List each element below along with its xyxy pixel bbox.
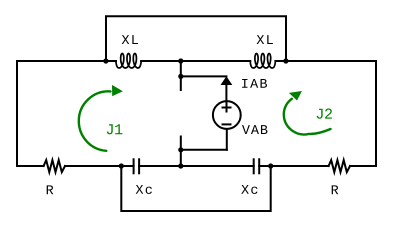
inductor XL right <box>250 54 275 69</box>
node dot top-right junction <box>283 58 288 63</box>
arrowhead IAB <box>221 76 233 85</box>
node dot jog bottom junction <box>178 147 183 152</box>
wire bottom row left <box>17 165 44 167</box>
capacitor Xc left plate B <box>138 159 140 173</box>
resistor R right <box>329 160 350 172</box>
node dot bottom-right junction <box>268 163 273 168</box>
inductor XL left <box>116 54 141 69</box>
node dot bottom-left junction <box>119 163 124 168</box>
wire middle bottom stub <box>180 137 182 167</box>
wire top row right <box>275 60 376 62</box>
label R right <box>332 185 339 194</box>
wire bottom row 2 <box>65 165 134 167</box>
label Xc right <box>241 185 257 194</box>
wire top row left <box>17 60 116 62</box>
label J2 <box>317 109 332 119</box>
wire bottom row 4 <box>259 165 328 167</box>
mesh arrow J2 head <box>289 91 302 101</box>
mesh arrow J1 arc <box>79 91 111 150</box>
wire source top lead <box>225 83 227 102</box>
mesh arrow J1 head <box>112 85 123 96</box>
minus sign <box>223 123 231 125</box>
label R left <box>47 185 54 194</box>
wire left leg <box>16 61 18 166</box>
node dot jog top junction <box>178 74 183 79</box>
label IAB <box>242 79 267 88</box>
node dot top-middle junction <box>178 58 183 63</box>
capacitor Xc right plate A <box>253 159 255 173</box>
label XL right <box>257 35 273 44</box>
capacitor Xc right plate B <box>258 159 260 173</box>
wire bottom row right <box>350 165 376 167</box>
wire middle top stub <box>180 61 182 90</box>
label J1 <box>107 124 123 134</box>
node dot top-left junction <box>103 58 108 63</box>
capacitor Xc left plate A <box>133 159 135 173</box>
mesh arrow J2 arc <box>284 99 331 135</box>
label VAB <box>242 125 267 134</box>
wire source bottom lead <box>226 130 228 150</box>
node dot bottom-middle junction <box>178 163 183 168</box>
wire jog from source bottom <box>181 149 227 151</box>
wire top row middle <box>141 60 250 62</box>
plus sign <box>223 104 231 112</box>
label Xc left <box>136 185 152 194</box>
voltage source VAB circle <box>213 101 241 129</box>
wire jog to source top <box>181 75 227 77</box>
resistor R left <box>44 160 65 172</box>
wire right leg <box>375 61 377 166</box>
wire bottom bypass rectangle <box>121 166 270 211</box>
wire top bypass rectangle <box>106 16 286 61</box>
label XL left <box>122 35 138 44</box>
wire bottom row 3 <box>139 165 254 167</box>
